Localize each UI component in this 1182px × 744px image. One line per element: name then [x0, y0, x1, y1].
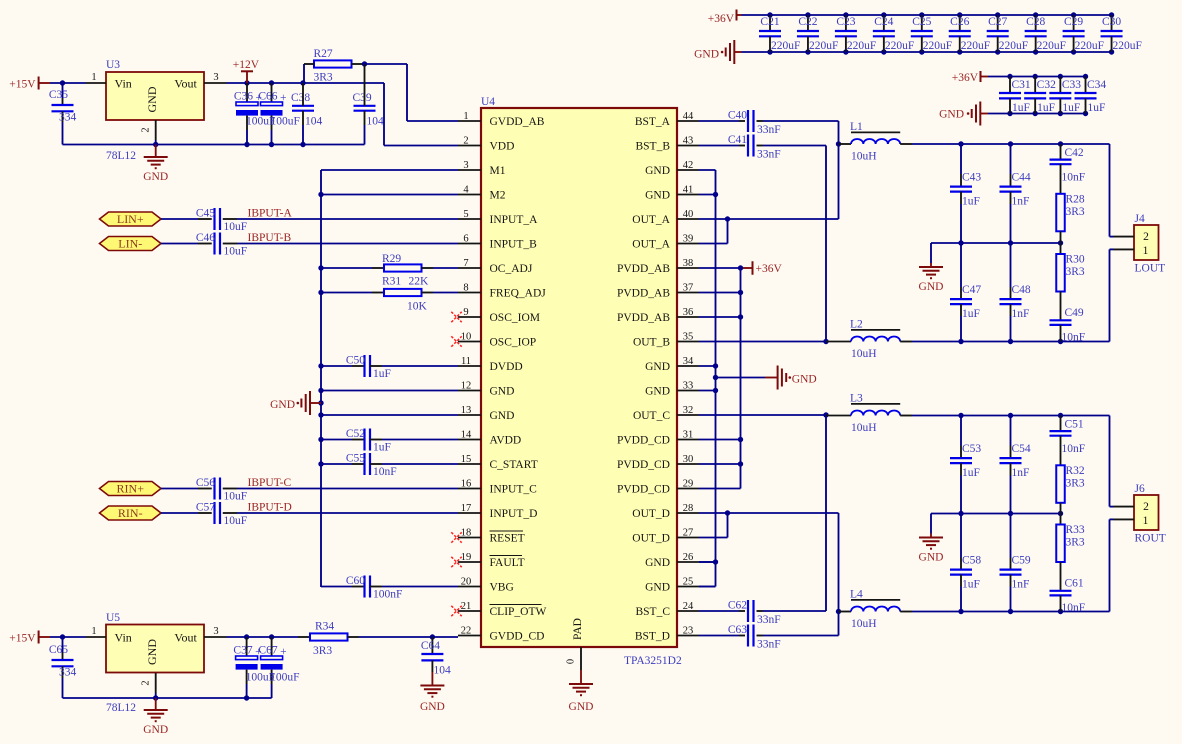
svg-text:GND: GND	[645, 582, 670, 594]
svg-text:C38: C38	[291, 92, 310, 104]
svg-text:C43: C43	[962, 172, 981, 184]
svg-text:32: 32	[683, 405, 694, 416]
svg-text:IBPUT-C: IBPUT-C	[248, 477, 292, 489]
svg-text:220uF: 220uF	[1037, 40, 1066, 52]
svg-text:1uF: 1uF	[1012, 102, 1030, 114]
svg-text:PVDD_AB: PVDD_AB	[617, 312, 670, 324]
svg-text:13: 13	[461, 405, 472, 416]
svg-text:OSC_IOP: OSC_IOP	[490, 337, 537, 349]
svg-text:PVDD_AB: PVDD_AB	[617, 288, 670, 300]
svg-text:1uF: 1uF	[1037, 102, 1055, 114]
svg-text:OUT_A: OUT_A	[632, 214, 670, 226]
svg-text:INPUT_B: INPUT_B	[490, 239, 538, 251]
svg-text:+: +	[280, 92, 287, 104]
svg-text:C41: C41	[728, 134, 747, 146]
svg-text:C67: C67	[258, 645, 277, 657]
svg-text:OUT_D: OUT_D	[632, 508, 670, 520]
svg-text:16: 16	[461, 479, 472, 490]
svg-text:INPUT_C: INPUT_C	[490, 484, 538, 496]
svg-text:2: 2	[1143, 501, 1149, 513]
svg-text:3R3: 3R3	[1066, 537, 1085, 549]
svg-text:C61: C61	[1065, 578, 1084, 590]
svg-text:R32: R32	[1066, 465, 1085, 477]
svg-text:FAULT: FAULT	[490, 557, 525, 569]
svg-text:C37: C37	[233, 645, 252, 657]
svg-text:C21: C21	[760, 16, 779, 28]
svg-text:GND: GND	[645, 190, 670, 202]
svg-text:220uF: 220uF	[885, 40, 914, 52]
svg-text:15: 15	[461, 454, 472, 465]
svg-text:10uF: 10uF	[224, 515, 248, 527]
svg-text:R30: R30	[1066, 254, 1085, 266]
svg-text:Vout: Vout	[174, 77, 197, 91]
svg-text:C40: C40	[728, 110, 747, 122]
svg-text:+15V: +15V	[9, 633, 36, 645]
svg-text:10uF: 10uF	[224, 246, 248, 258]
svg-text:U5: U5	[106, 612, 120, 624]
svg-text:1: 1	[91, 626, 96, 637]
svg-text:10: 10	[461, 332, 472, 343]
svg-text:GND: GND	[145, 86, 159, 112]
svg-text:GND: GND	[420, 701, 445, 713]
svg-text:C63: C63	[728, 624, 747, 636]
svg-text:AVDD: AVDD	[490, 435, 522, 447]
svg-text:C23: C23	[836, 16, 855, 28]
svg-text:C35: C35	[49, 89, 68, 101]
svg-text:GND: GND	[645, 361, 670, 373]
svg-text:3: 3	[463, 160, 468, 171]
svg-text:LIN+: LIN+	[117, 212, 144, 226]
svg-text:22: 22	[461, 626, 472, 637]
svg-text:2: 2	[463, 136, 468, 147]
svg-text:10uH: 10uH	[851, 348, 877, 360]
svg-text:C47: C47	[962, 284, 981, 296]
svg-text:33: 33	[683, 381, 694, 392]
svg-text:C25: C25	[912, 16, 931, 28]
svg-text:42: 42	[683, 160, 694, 171]
svg-text:OUT_C: OUT_C	[633, 410, 670, 422]
svg-text:C58: C58	[962, 555, 981, 567]
svg-text:220uF: 220uF	[771, 40, 800, 52]
svg-text:RIN+: RIN+	[117, 482, 145, 496]
svg-text:GND: GND	[143, 724, 168, 736]
svg-text:1uF: 1uF	[1062, 102, 1080, 114]
svg-text:GVDD_AB: GVDD_AB	[490, 116, 545, 128]
svg-text:C51: C51	[1065, 419, 1084, 431]
svg-text:C34: C34	[1087, 79, 1106, 91]
svg-text:Vin: Vin	[115, 631, 132, 645]
svg-text:C62: C62	[728, 600, 747, 612]
svg-text:44: 44	[683, 111, 694, 122]
svg-text:10nF: 10nF	[1062, 443, 1086, 455]
svg-text:L4: L4	[850, 589, 863, 601]
svg-text:3R3: 3R3	[1066, 477, 1085, 489]
svg-text:OC_ADJ: OC_ADJ	[490, 263, 533, 275]
svg-text:43: 43	[683, 136, 694, 147]
svg-text:10nF: 10nF	[373, 466, 397, 478]
svg-text:220uF: 220uF	[1113, 40, 1142, 52]
svg-text:20: 20	[461, 577, 472, 588]
svg-text:GND: GND	[792, 374, 817, 386]
svg-text:RESET: RESET	[490, 533, 525, 545]
svg-text:1nF: 1nF	[1012, 308, 1030, 320]
svg-text:10nF: 10nF	[1062, 602, 1086, 614]
svg-text:R29: R29	[382, 253, 401, 265]
svg-text:220uF: 220uF	[923, 40, 952, 52]
svg-text:+36V: +36V	[952, 72, 979, 84]
svg-text:C22: C22	[798, 16, 817, 28]
svg-text:C42: C42	[1065, 147, 1084, 159]
svg-text:INPUT_D: INPUT_D	[490, 508, 538, 520]
svg-text:33nF: 33nF	[757, 614, 781, 626]
svg-text:1: 1	[1143, 515, 1149, 527]
svg-text:26: 26	[683, 552, 694, 563]
svg-text:10uH: 10uH	[851, 151, 877, 163]
svg-text:10nF: 10nF	[1062, 332, 1086, 344]
svg-text:5: 5	[463, 209, 468, 220]
svg-text:OUT_A: OUT_A	[632, 239, 670, 251]
svg-text:C56: C56	[196, 477, 215, 489]
svg-text:GND: GND	[919, 281, 944, 293]
svg-text:C57: C57	[196, 502, 215, 514]
svg-text:LOUT: LOUT	[1135, 262, 1166, 274]
svg-text:17: 17	[461, 503, 472, 514]
svg-text:C33: C33	[1062, 79, 1081, 91]
svg-text:35: 35	[683, 332, 694, 343]
svg-text:C60: C60	[346, 575, 365, 587]
svg-text:0: 0	[566, 659, 577, 664]
svg-text:1nF: 1nF	[1012, 196, 1030, 208]
svg-text:GVDD_CD: GVDD_CD	[490, 631, 545, 643]
svg-text:4: 4	[463, 185, 469, 196]
svg-text:1uF: 1uF	[373, 368, 391, 380]
svg-text:BST_A: BST_A	[635, 116, 671, 128]
svg-text:9: 9	[463, 307, 468, 318]
svg-text:C_START: C_START	[490, 459, 538, 471]
svg-text:Vin: Vin	[115, 77, 132, 91]
svg-text:10nF: 10nF	[1062, 172, 1086, 184]
svg-text:C46: C46	[196, 232, 215, 244]
svg-text:1uF: 1uF	[962, 308, 980, 320]
svg-text:24: 24	[683, 601, 694, 612]
svg-text:C55: C55	[346, 453, 365, 465]
svg-text:C64: C64	[421, 640, 440, 652]
svg-text:C30: C30	[1102, 16, 1121, 28]
svg-text:40: 40	[683, 209, 694, 220]
svg-text:1uF: 1uF	[962, 196, 980, 208]
svg-text:78L12: 78L12	[106, 150, 136, 162]
svg-text:104: 104	[305, 116, 323, 128]
svg-text:1: 1	[463, 111, 468, 122]
svg-text:10K: 10K	[407, 301, 428, 313]
svg-text:GND: GND	[490, 410, 515, 422]
svg-text:78L12: 78L12	[106, 702, 136, 714]
svg-text:L2: L2	[850, 319, 863, 331]
svg-text:RIN-: RIN-	[118, 506, 143, 520]
svg-text:29: 29	[683, 479, 694, 490]
svg-text:10uF: 10uF	[224, 491, 248, 503]
svg-text:U4: U4	[481, 96, 495, 108]
svg-text:R33: R33	[1066, 524, 1085, 536]
svg-text:INPUT_A: INPUT_A	[490, 214, 539, 226]
svg-text:10uH: 10uH	[851, 422, 877, 434]
svg-text:334: 334	[59, 112, 77, 124]
svg-text:3R3: 3R3	[313, 645, 332, 657]
svg-text:R31: R31	[382, 276, 401, 288]
svg-text:GND: GND	[490, 386, 515, 398]
svg-text:1: 1	[1143, 245, 1149, 257]
svg-text:C24: C24	[874, 16, 893, 28]
svg-text:GND: GND	[939, 109, 964, 121]
svg-text:+: +	[280, 646, 287, 658]
svg-text:100nF: 100nF	[373, 589, 402, 601]
svg-text:+15V: +15V	[9, 79, 36, 91]
svg-text:Vout: Vout	[174, 631, 197, 645]
svg-text:27: 27	[683, 528, 694, 539]
svg-text:BST_D: BST_D	[635, 631, 670, 643]
svg-text:PAD: PAD	[572, 618, 584, 640]
svg-text:18: 18	[461, 528, 472, 539]
svg-text:GND: GND	[569, 701, 594, 713]
svg-text:C31: C31	[1012, 79, 1031, 91]
svg-text:37: 37	[683, 283, 694, 294]
svg-text:R28: R28	[1066, 194, 1085, 206]
svg-text:U3: U3	[106, 59, 120, 71]
svg-text:VDD: VDD	[490, 141, 515, 153]
svg-text:TPA3251D2: TPA3251D2	[624, 655, 682, 667]
svg-text:3: 3	[213, 626, 218, 637]
svg-text:C54: C54	[1012, 443, 1031, 455]
svg-text:GND: GND	[143, 171, 168, 183]
svg-text:220uF: 220uF	[1075, 40, 1104, 52]
svg-text:104: 104	[434, 665, 452, 677]
svg-text:2: 2	[1143, 231, 1149, 243]
svg-text:3: 3	[213, 72, 218, 83]
svg-text:R34: R34	[315, 621, 334, 633]
svg-text:1nF: 1nF	[1012, 467, 1030, 479]
svg-text:8: 8	[463, 283, 468, 294]
svg-text:L3: L3	[850, 393, 863, 405]
svg-text:PVDD_CD: PVDD_CD	[617, 484, 670, 496]
svg-text:GND: GND	[694, 49, 719, 61]
svg-text:J6: J6	[1135, 483, 1145, 495]
svg-text:1uF: 1uF	[962, 467, 980, 479]
svg-text:IBPUT-A: IBPUT-A	[248, 208, 293, 220]
svg-text:GND: GND	[645, 165, 670, 177]
svg-text:30: 30	[683, 454, 694, 465]
svg-text:6: 6	[463, 234, 468, 245]
svg-text:C27: C27	[988, 16, 1007, 28]
svg-text:1: 1	[91, 72, 96, 83]
svg-text:220uF: 220uF	[999, 40, 1028, 52]
svg-text:220uF: 220uF	[847, 40, 876, 52]
svg-text:1uF: 1uF	[962, 579, 980, 591]
svg-text:1nF: 1nF	[1012, 579, 1030, 591]
svg-text:PVDD_AB: PVDD_AB	[617, 263, 670, 275]
svg-text:100uF: 100uF	[270, 672, 299, 684]
svg-text:3R3: 3R3	[314, 72, 333, 84]
svg-text:IBPUT-B: IBPUT-B	[248, 232, 292, 244]
svg-text:39: 39	[683, 234, 694, 245]
svg-text:C32: C32	[1037, 79, 1056, 91]
svg-text:1uF: 1uF	[373, 442, 391, 454]
svg-text:34: 34	[683, 356, 694, 367]
svg-text:J4: J4	[1135, 213, 1145, 225]
svg-text:VBG: VBG	[490, 582, 514, 594]
svg-text:220uF: 220uF	[961, 40, 990, 52]
svg-text:14: 14	[461, 430, 472, 441]
svg-text:10uH: 10uH	[851, 618, 877, 630]
svg-text:OUT_D: OUT_D	[632, 533, 670, 545]
svg-text:ROUT: ROUT	[1135, 532, 1166, 544]
svg-text:33nF: 33nF	[757, 149, 781, 161]
svg-text:M2: M2	[490, 190, 506, 202]
svg-text:LIN-: LIN-	[118, 237, 142, 251]
svg-text:PVDD_CD: PVDD_CD	[617, 435, 670, 447]
svg-text:GND: GND	[919, 552, 944, 564]
svg-text:C28: C28	[1026, 16, 1045, 28]
svg-text:19: 19	[461, 552, 472, 563]
svg-text:OSC_IOM: OSC_IOM	[490, 312, 540, 324]
svg-text:11: 11	[461, 356, 471, 367]
svg-text:BST_C: BST_C	[635, 606, 670, 618]
svg-text:OUT_B: OUT_B	[633, 337, 670, 349]
svg-text:3R3: 3R3	[1066, 206, 1085, 218]
svg-text:GND: GND	[270, 399, 295, 411]
svg-text:22K: 22K	[409, 276, 430, 288]
svg-text:+36V: +36V	[708, 13, 735, 25]
svg-text:334: 334	[59, 667, 77, 679]
svg-text:31: 31	[683, 430, 694, 441]
svg-text:C26: C26	[950, 16, 969, 28]
svg-text:33nF: 33nF	[757, 124, 781, 136]
svg-text:10uF: 10uF	[224, 221, 248, 233]
svg-text:C48: C48	[1012, 284, 1031, 296]
svg-text:7: 7	[463, 258, 468, 269]
svg-text:104: 104	[367, 116, 385, 128]
svg-text:M1: M1	[490, 165, 506, 177]
svg-text:GND: GND	[145, 639, 159, 665]
svg-text:PVDD_CD: PVDD_CD	[617, 459, 670, 471]
svg-text:33nF: 33nF	[757, 639, 781, 651]
svg-text:+12V: +12V	[233, 59, 260, 71]
svg-text:C29: C29	[1064, 16, 1083, 28]
svg-text:3R3: 3R3	[1066, 266, 1085, 278]
svg-text:28: 28	[683, 503, 694, 514]
svg-text:DVDD: DVDD	[490, 361, 523, 373]
svg-text:C59: C59	[1012, 555, 1031, 567]
svg-text:25: 25	[683, 577, 694, 588]
svg-text:C65: C65	[49, 644, 68, 656]
svg-text:+36V: +36V	[756, 263, 783, 275]
svg-text:21: 21	[461, 601, 472, 612]
svg-text:R27: R27	[314, 48, 333, 60]
svg-text:100uF: 100uF	[271, 116, 300, 128]
svg-text:C50: C50	[346, 355, 365, 367]
svg-text:1uF: 1uF	[1088, 102, 1106, 114]
svg-text:C66: C66	[258, 91, 277, 103]
svg-text:2: 2	[141, 680, 152, 685]
svg-text:38: 38	[683, 258, 694, 269]
svg-text:23: 23	[683, 626, 694, 637]
svg-text:C53: C53	[962, 443, 981, 455]
svg-text:2: 2	[141, 127, 152, 132]
svg-text:C49: C49	[1065, 307, 1084, 319]
svg-text:36: 36	[683, 307, 694, 318]
svg-text:FREQ_ADJ: FREQ_ADJ	[490, 288, 547, 300]
svg-text:C44: C44	[1012, 172, 1031, 184]
svg-text:C45: C45	[196, 208, 215, 220]
svg-text:GND: GND	[645, 557, 670, 569]
svg-text:C36: C36	[234, 91, 253, 103]
svg-text:41: 41	[683, 185, 694, 196]
svg-text:CLIP_OTW: CLIP_OTW	[490, 606, 547, 618]
svg-text:C52: C52	[346, 428, 365, 440]
svg-text:L1: L1	[850, 121, 863, 133]
svg-text:IBPUT-D: IBPUT-D	[248, 502, 292, 514]
svg-text:C39: C39	[353, 92, 372, 104]
svg-text:12: 12	[461, 381, 472, 392]
svg-text:BST_B: BST_B	[635, 141, 670, 153]
svg-text:220uF: 220uF	[809, 40, 838, 52]
svg-text:GND: GND	[645, 386, 670, 398]
